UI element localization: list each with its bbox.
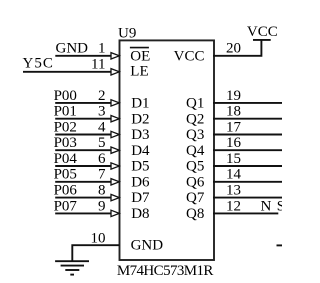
- wire pin 18 (Q2): [213, 118, 282, 120]
- wire GND net to pin 1: [55, 55, 111, 57]
- pin number 18: [226, 104, 241, 120]
- svg-text:4: 4: [98, 119, 106, 135]
- svg-text:GND: GND: [131, 237, 164, 253]
- svg-text:P05: P05: [54, 167, 77, 183]
- pin number 12: [226, 198, 241, 214]
- wire pin 20 to VCC: [213, 40, 261, 56]
- svg-text:M74HC573M1R: M74HC573M1R: [117, 263, 214, 279]
- net label P07: [54, 198, 78, 214]
- pin number 5: [98, 135, 106, 151]
- pin number 13: [226, 183, 241, 199]
- svg-text:P06: P06: [54, 183, 78, 199]
- pin number 6: [98, 151, 106, 167]
- svg-text:10: 10: [91, 231, 106, 247]
- pin label GND (pin 10): [131, 237, 164, 253]
- input buffer arrow pin 11: [111, 69, 119, 75]
- svg-text:11: 11: [91, 57, 105, 73]
- net label Y5C: [23, 55, 54, 71]
- svg-text:VCC: VCC: [247, 24, 278, 40]
- pin number 15: [226, 151, 241, 167]
- net label P06: [54, 183, 78, 199]
- net label P04: [54, 151, 78, 167]
- op/latch IC U9 body: [120, 40, 215, 260]
- svg-text:N: N: [261, 198, 272, 214]
- svg-text:Q7: Q7: [186, 190, 205, 206]
- pin label D4: [131, 143, 150, 159]
- svg-text:18: 18: [226, 104, 241, 120]
- svg-text:9: 9: [98, 198, 106, 214]
- svg-text:Q3: Q3: [186, 127, 204, 143]
- input buffer arrow pin 4: [111, 131, 119, 137]
- pin number 19: [226, 88, 241, 104]
- svg-text:P04: P04: [54, 151, 78, 167]
- svg-text:P00: P00: [54, 88, 77, 104]
- refdes U9: [118, 25, 136, 41]
- pin number 2: [98, 88, 106, 104]
- pin number 1: [98, 41, 106, 57]
- pin label Q4: [186, 143, 205, 159]
- pin number 4: [98, 119, 106, 135]
- wire Y5C net to pin 11: [23, 71, 111, 73]
- net label S (clipped at right edge): [277, 198, 285, 214]
- net label P02: [54, 119, 77, 135]
- wire pin 14 (Q6): [213, 181, 282, 183]
- pin label D5: [131, 159, 149, 175]
- svg-text:VCC: VCC: [174, 48, 205, 64]
- pin label OE (pin 1, with overline): [130, 48, 150, 65]
- wire pin 19 (Q1): [213, 102, 282, 104]
- svg-text:D2: D2: [131, 111, 149, 127]
- pin label D3: [131, 127, 149, 143]
- pin label Q1: [186, 96, 204, 112]
- svg-text:Q6: Q6: [186, 174, 205, 190]
- svg-text:S: S: [277, 198, 282, 214]
- svg-text:6: 6: [98, 151, 106, 167]
- wire P06 to pin 8: [55, 197, 111, 199]
- svg-text:D5: D5: [131, 159, 149, 175]
- net label P00: [54, 88, 77, 104]
- input buffer arrow pin 7: [111, 179, 119, 185]
- wire pin 15 (Q5): [213, 165, 282, 167]
- svg-text:Q1: Q1: [186, 96, 204, 112]
- pin label Q3: [186, 127, 204, 143]
- pin number 20: [226, 41, 241, 57]
- input buffer arrow pin 1: [111, 53, 119, 59]
- svg-text:Q4: Q4: [186, 143, 205, 159]
- pin label D7: [131, 190, 150, 206]
- pin label LE (pin 11): [130, 64, 148, 80]
- pin label Q8: [186, 206, 204, 222]
- wire ground to pin 10: [72, 245, 119, 260]
- wire P00 to pin 2: [55, 102, 111, 104]
- pin number 10: [91, 231, 106, 247]
- pin label Q6: [186, 174, 205, 190]
- svg-text:7: 7: [98, 167, 106, 183]
- svg-text:12: 12: [226, 198, 241, 214]
- input buffer arrow pin 3: [111, 116, 119, 122]
- pin number 7: [98, 167, 106, 183]
- svg-text:13: 13: [226, 183, 241, 199]
- pin label D6: [131, 174, 150, 190]
- svg-text:2: 2: [98, 88, 106, 104]
- wire P07 to pin 9: [55, 212, 111, 214]
- ground symbol: [55, 261, 89, 274]
- input buffer arrow pin 5: [111, 147, 119, 153]
- svg-text:14: 14: [226, 167, 242, 183]
- svg-text:P01: P01: [54, 104, 77, 120]
- svg-text:17: 17: [226, 119, 242, 135]
- svg-text:GND: GND: [56, 40, 89, 56]
- input buffer arrow pin 8: [111, 194, 119, 200]
- svg-text:19: 19: [226, 88, 241, 104]
- svg-text:15: 15: [226, 151, 241, 167]
- wire P02 to pin 4: [55, 134, 111, 136]
- pin label D1: [131, 96, 149, 112]
- svg-text:Q8: Q8: [186, 206, 204, 222]
- svg-text:Y5C: Y5C: [23, 55, 54, 71]
- wire pin 13 (Q7): [213, 197, 282, 199]
- pin label Q5: [186, 159, 204, 175]
- svg-text:Q2: Q2: [186, 111, 204, 127]
- pin number 16: [226, 135, 242, 151]
- wire P04 to pin 6: [55, 165, 111, 167]
- svg-text:OE: OE: [130, 48, 150, 64]
- pin label Q7: [186, 190, 205, 206]
- svg-text:1: 1: [98, 41, 106, 57]
- part value M74HC573M1R: [117, 263, 214, 279]
- pin number 14: [226, 167, 242, 183]
- svg-text:5: 5: [98, 135, 106, 151]
- svg-text:D8: D8: [131, 206, 149, 222]
- svg-text:D4: D4: [131, 143, 150, 159]
- pin label VCC (pin 20): [174, 48, 205, 64]
- net label P03: [54, 135, 77, 151]
- pin number 3: [98, 104, 106, 120]
- svg-text:20: 20: [226, 41, 241, 57]
- svg-text:D6: D6: [131, 174, 150, 190]
- pin number 9: [98, 198, 106, 214]
- pin label D2: [131, 111, 149, 127]
- wire P03 to pin 5: [55, 149, 111, 151]
- svg-text:LE: LE: [130, 64, 148, 80]
- svg-text:P07: P07: [54, 198, 78, 214]
- svg-text:16: 16: [226, 135, 242, 151]
- net label P01: [54, 104, 77, 120]
- net label N (partial, right edge): [261, 198, 272, 214]
- input buffer arrow pin 2: [111, 100, 119, 106]
- svg-text:P02: P02: [54, 119, 77, 135]
- input buffer arrow pin 9: [111, 210, 119, 216]
- svg-text:8: 8: [98, 183, 106, 199]
- svg-text:D7: D7: [131, 190, 150, 206]
- pin number 17: [226, 119, 242, 135]
- svg-text:Q5: Q5: [186, 159, 204, 175]
- wire P05 to pin 7: [55, 181, 111, 183]
- wire pin 17 (Q3): [213, 134, 282, 136]
- pin number 11: [91, 57, 105, 73]
- svg-text:3: 3: [98, 104, 106, 120]
- net label GND (left): [56, 40, 89, 56]
- wire pin 12 (Q8): [213, 212, 278, 214]
- pin label Q2: [186, 111, 204, 127]
- pin label D8: [131, 206, 149, 222]
- component stub at bottom right edge: [277, 244, 283, 246]
- VCC power symbol bar: [253, 39, 271, 41]
- net label P05: [54, 167, 77, 183]
- input buffer arrow pin 6: [111, 163, 119, 169]
- svg-text:D1: D1: [131, 96, 149, 112]
- svg-text:D3: D3: [131, 127, 149, 143]
- pin number 8: [98, 183, 106, 199]
- svg-text:U9: U9: [118, 25, 136, 41]
- svg-text:P03: P03: [54, 135, 77, 151]
- wire pin 16 (Q4): [213, 149, 282, 151]
- power net label VCC: [247, 24, 278, 40]
- wire P01 to pin 3: [55, 118, 111, 120]
